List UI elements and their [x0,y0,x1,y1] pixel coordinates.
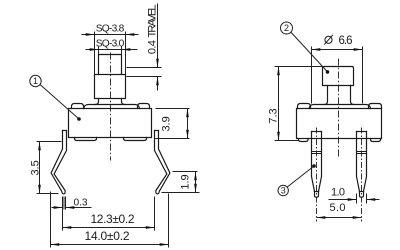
svg-text:3.5: 3.5 [30,160,42,175]
svg-text:12.3±0.2: 12.3±0.2 [91,212,135,226]
svg-text:3.9: 3.9 [161,116,173,131]
svg-text:6.6: 6.6 [339,35,353,47]
svg-text:0.4: 0.4 [147,40,159,54]
svg-text:14.0±0.2: 14.0±0.2 [85,229,130,243]
svg-text:0.3: 0.3 [74,198,88,209]
svg-text:1: 1 [33,76,38,86]
svg-text:SQ-3.0: SQ-3.0 [96,38,125,49]
svg-text:1.0: 1.0 [331,187,345,199]
svg-text:2: 2 [284,23,289,33]
svg-text:7.3: 7.3 [268,108,280,123]
svg-text:1.9: 1.9 [180,174,192,189]
svg-text:3: 3 [281,186,286,196]
svg-text:TRAVEL: TRAVEL [147,5,159,38]
svg-text:SQ-3.8: SQ-3.8 [96,24,125,35]
svg-text:5.0: 5.0 [330,202,346,214]
